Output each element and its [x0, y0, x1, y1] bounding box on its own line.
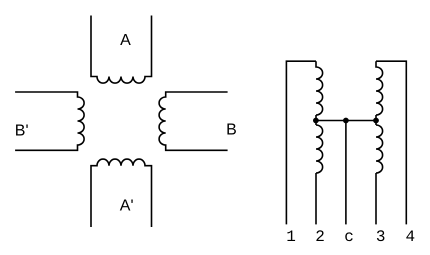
svg-text:4: 4: [406, 228, 416, 246]
svg-text:B: B: [226, 121, 237, 138]
svg-text:A': A': [120, 197, 134, 214]
winding upper-left of stack (phase A half): [316, 61, 323, 115]
coil A (top phase winding): [91, 16, 152, 84]
winding lower-right of stack (phase B half): [376, 125, 383, 173]
coil B (right phase winding): [159, 92, 228, 150]
wire 2 (bottom of left stack to terminal 2): [315, 173, 317, 224]
svg-text:c: c: [344, 228, 354, 246]
svg-text:1: 1: [286, 228, 296, 246]
coil B' (left phase winding): [15, 92, 84, 150]
coil A' (bottom phase winding): [91, 159, 152, 227]
wire center-tap stub right stack: [375, 115, 377, 125]
svg-text:A: A: [120, 32, 131, 49]
svg-text:B': B': [15, 122, 29, 139]
junction dot common: [343, 118, 349, 124]
winding lower-left of stack (phase A half): [316, 125, 323, 173]
junction dot left center tap: [313, 118, 319, 124]
wire c (common terminal): [345, 121, 347, 225]
wire 1 (terminal 1 up and over to top of left stack): [286, 61, 316, 224]
winding upper-right of stack (phase B half): [376, 61, 383, 115]
svg-text:3: 3: [376, 228, 386, 246]
junction dot right center tap: [373, 118, 379, 124]
wire center-tap stub left stack: [315, 115, 317, 125]
svg-text:2: 2: [315, 228, 325, 246]
wire center-tap bus: [316, 120, 376, 122]
wire 4 (terminal 4 up and over to top of right stack): [376, 61, 406, 224]
wire 3 (bottom of right stack to terminal 3): [375, 173, 377, 224]
